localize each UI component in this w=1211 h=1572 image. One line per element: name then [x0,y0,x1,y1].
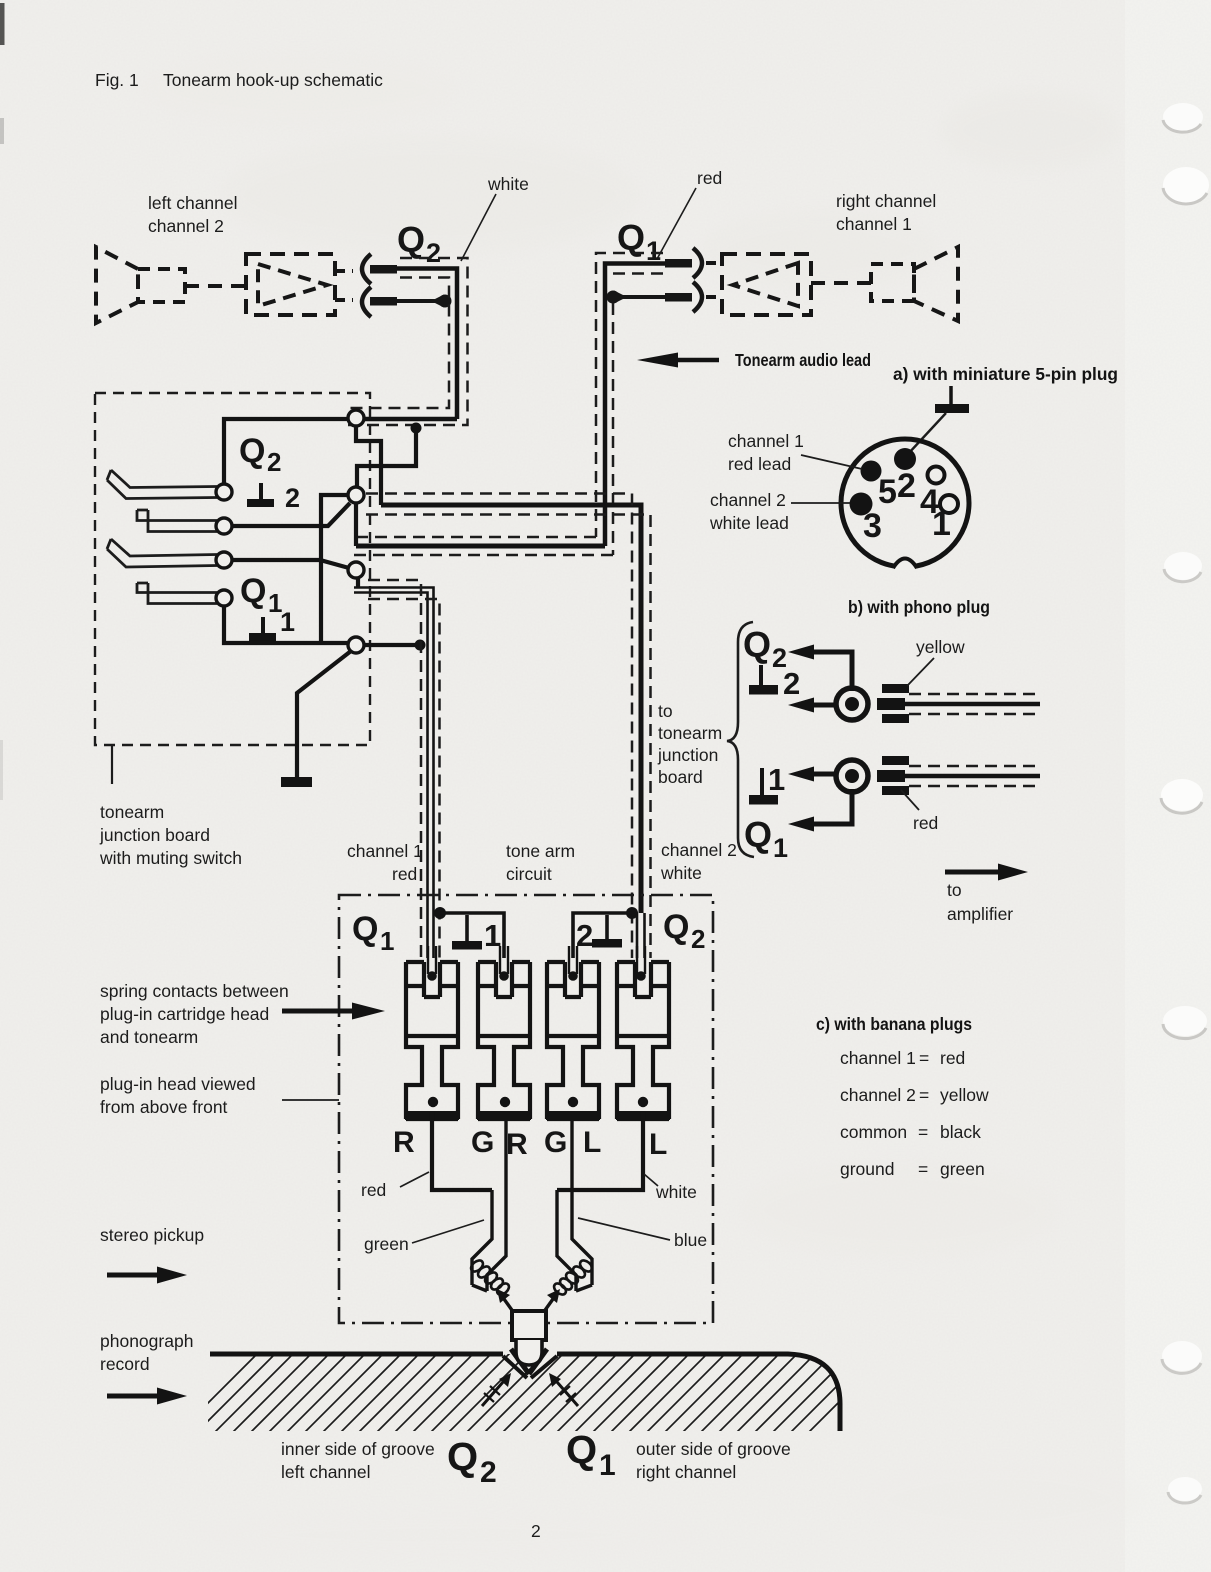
stylus tip [516,1340,542,1365]
leader red (phono) [901,790,919,810]
svg-text:Q: Q [240,572,266,610]
svg-text:channel 1: channel 1 [728,431,804,451]
spring contact arm t1 [107,470,217,499]
terminal t3 (Q1) [216,552,232,568]
stylus body [512,1311,546,1340]
wires amp to right sockets [706,263,722,297]
DIN plug locating notch [894,560,916,570]
svg-text:to: to [947,880,962,900]
svg-text:and tonearm: and tonearm [100,1027,198,1047]
wires amp to left sockets [335,271,353,300]
switch contact c2 [348,487,364,503]
left coil arm walls [472,1120,506,1291]
wire Q2 plug shield [397,299,439,303]
arrow phono jack2 to ground 1 [812,772,835,777]
svg-text:b) with phono plug: b) with phono plug [848,597,990,617]
svg-text:tonearm: tonearm [658,723,722,743]
arrow stereo pickup [107,1273,159,1278]
wire c4 to ground symbol [297,651,351,778]
svg-text:channel 1: channel 1 [840,1048,916,1068]
svg-text:channel 2: channel 2 [710,490,786,510]
terminal t4 (ground 1) [216,590,232,606]
svg-text:=: = [918,1122,928,1142]
ground symbol 2 (board) [259,483,263,500]
right amplifier triangle [733,263,798,306]
svg-text:channel 2: channel 2 [840,1085,916,1105]
svg-text:junction board: junction board [99,825,210,845]
Q1 cable shield dashed inner [352,274,663,556]
svg-text:=: = [919,1085,929,1105]
svg-text:2: 2 [897,467,916,505]
record surface right with rounded edge [557,1354,840,1431]
left speaker horn [96,247,138,323]
svg-text:red: red [913,813,938,833]
Q2 plug shield teardrop [439,295,452,308]
spring contact arm t2 [137,510,217,532]
arrow stylus to right coil [543,1299,553,1313]
svg-text:Tonearm hook-up schematic: Tonearm hook-up schematic [163,70,383,90]
groove walls [503,1356,557,1378]
svg-text:2: 2 [691,924,705,954]
svg-text:channel 2: channel 2 [661,840,737,860]
wire Q1 plug shield [619,295,665,299]
svg-text:channel 1: channel 1 [836,214,912,234]
svg-text:record: record [100,1354,150,1374]
left amplifier triangle [258,264,327,306]
tone arm circuit box [339,895,713,1323]
svg-text:Tonearm audio lead: Tonearm audio lead [735,350,871,370]
groove arrow left [482,1382,503,1406]
right socket arcs [693,248,702,312]
svg-text:Q: Q [239,432,265,470]
channel 1 shield dashed right [368,599,440,958]
svg-text:plug-in head viewed: plug-in head viewed [100,1074,256,1094]
page edge smudges [0,3,5,45]
svg-text:2: 2 [783,666,800,701]
arrow phonograph record [107,1394,159,1399]
arrow phono jack2 to Q1 [812,789,852,824]
svg-text:circuit: circuit [506,864,552,884]
svg-text:1: 1 [599,1449,616,1482]
punch hole 5 [1163,1006,1207,1039]
svg-text:junction: junction [657,745,718,765]
svg-text:yellow: yellow [940,1085,989,1105]
arrow phono jack1 to ground 2 [812,703,835,708]
svg-text:L: L [649,1128,667,1161]
svg-text:green: green [940,1159,985,1179]
svg-text:right channel: right channel [836,191,936,211]
arrow phono jack1 to Q2 [812,652,852,691]
svg-text:c) with banana plugs: c) with banana plugs [816,1014,972,1034]
Q1 audio cable (red, solid) [605,264,665,547]
wire t3 to c3 (switch arm) [232,560,349,568]
right coil arm walls [557,1120,592,1291]
svg-text:yellow: yellow [916,637,965,657]
svg-text:to: to [658,701,673,721]
spring contact arm t4 [137,583,217,604]
svg-text:R: R [393,1126,415,1159]
punch hole 1 [1163,103,1203,132]
svg-text:2: 2 [285,483,300,513]
ground symbol 2 (phono) [759,665,763,687]
svg-text:5: 5 [878,473,897,511]
svg-text:2: 2 [576,918,593,953]
svg-text:Q: Q [352,910,378,948]
DIN pin 5 [861,461,882,482]
channel1 bus horizontal (to Q1 cable) [356,544,605,549]
DIN pin 3 [850,493,873,516]
junction dot channel1 shield [434,907,446,919]
stylus contact V [511,1349,547,1374]
svg-text:Q: Q [744,814,772,855]
svg-text:with muting switch: with muting switch [99,848,242,868]
tonearm junction board outline [95,393,370,745]
svg-text:plug-in cartridge head: plug-in cartridge head [100,1004,269,1024]
left coil spring [469,1258,511,1296]
wire c3 to channel 1 run [356,578,360,587]
svg-text:2: 2 [531,1521,541,1541]
channel 2 bus lower double line [637,913,645,958]
channel 2 shield dashed outer [366,515,651,959]
leader red [400,1172,429,1187]
wire R down to left coil bar [432,1112,492,1190]
groove arrow right [557,1382,578,1406]
svg-text:common: common [840,1122,907,1142]
Q1 plug tips [665,259,692,268]
phono jack 1 [836,688,868,720]
spring contact unit 2 (G) [478,962,530,1119]
svg-text:1: 1 [932,505,951,543]
terminal t1 (Q2) [216,484,232,500]
record hatching [176,1351,890,1435]
svg-text:Fig. 1: Fig. 1 [95,70,139,90]
svg-text:green: green [364,1234,409,1254]
right coil spring [552,1258,594,1296]
svg-text:2: 2 [267,447,281,477]
right speaker terminal box [871,264,914,301]
wire c1 to channel2 bus [356,426,381,505]
channel 2 shield dashed inner [366,494,632,959]
svg-text:2: 2 [426,238,441,268]
svg-text:white: white [487,174,529,194]
svg-text:from above front: from above front [100,1097,228,1117]
svg-text:G: G [544,1126,567,1159]
wire c4 tail to shield dot [364,643,418,647]
tonearm audio lead arrow [677,358,719,363]
wire ground2 to contact 3 [573,913,632,958]
phono cable 2 (red) [905,774,1040,779]
spring contact unit 1 (R) [406,962,458,1119]
wire t1 to contact c1 [224,419,347,484]
svg-text:Q: Q [743,624,771,665]
ground symbol 1 (board) [261,617,265,634]
DIN pin 1 [940,495,958,513]
junction board pointer tick [111,746,113,784]
svg-text:channel 2: channel 2 [148,216,224,236]
Q2 cable shield dashed outer [346,258,468,425]
svg-text:red: red [392,864,417,884]
svg-text:outer side of groove: outer side of groove [636,1439,791,1459]
leader yellow [907,658,934,686]
leader blue [578,1218,670,1240]
svg-text:amplifier: amplifier [947,904,1013,924]
leader white [644,1174,658,1186]
svg-text:black: black [940,1122,981,1142]
Q1 cable shield dashed outer [352,253,663,537]
svg-text:blue: blue [674,1230,707,1250]
svg-text:red: red [697,168,722,188]
arrow stylus to left coil [504,1299,514,1313]
left socket arcs [362,254,371,317]
svg-text:1: 1 [773,833,788,863]
svg-text:1: 1 [768,762,785,797]
Q2 plug tips [370,265,397,274]
punch hole 2 [1163,167,1209,204]
svg-text:=: = [918,1159,928,1179]
left amplifier box [246,254,335,315]
wire shield tap to c2 [357,428,416,488]
shield tap dot (channel 1) [415,640,426,651]
svg-text:=: = [919,1048,929,1068]
punch hole 6 [1162,1341,1202,1373]
svg-text:Q: Q [447,1435,478,1479]
svg-text:spring contacts between: spring contacts between [100,981,289,1001]
svg-text:2: 2 [480,1456,497,1489]
wire ground1 to contact 2 [440,913,504,958]
svg-text:G: G [471,1126,494,1159]
wire speaker to right amp [811,281,871,285]
right speaker horn [914,247,958,321]
svg-text:Q: Q [566,1428,597,1472]
arrow to amplifier [945,870,999,875]
svg-text:tone arm: tone arm [506,841,575,861]
Q2 cable shield dashed inner [346,278,449,409]
svg-text:R: R [506,1128,528,1161]
svg-text:white lead: white lead [709,513,789,533]
wire t2 to c2 (switch arm) [232,503,350,526]
svg-text:L: L [583,1126,601,1159]
channel 1 shield dashed left [368,580,421,958]
punch hole 3 [1164,552,1202,582]
DIN plug ground symbol [949,386,953,406]
leader ground to pin 2 [908,413,946,454]
svg-text:red: red [361,1180,386,1200]
Q1 plug shield teardrop [607,291,620,304]
svg-text:1: 1 [380,926,394,956]
wire t4 to c4 [224,606,347,643]
svg-text:Q: Q [397,219,425,260]
leader white to Q2 cable [461,194,496,261]
wire c2 to ground-1 rail [321,495,347,643]
record surface left [210,1352,503,1357]
phono plug 2 body [882,756,909,765]
phono plug 1 body [882,684,909,693]
svg-text:red: red [940,1048,965,1068]
wire c2 to channel1 bus [354,503,358,546]
svg-text:1: 1 [484,918,501,953]
leader red to Q1 cable [657,188,696,259]
junction dot channel2 shield [626,907,638,919]
terminal t2 (ground 2) [216,518,232,534]
svg-text:white: white [655,1182,697,1202]
punch hole 4 [1161,779,1203,813]
svg-text:left channel: left channel [281,1462,371,1482]
svg-text:right channel: right channel [636,1462,736,1482]
Q2 audio cable (white, solid) [365,269,457,420]
spring contact unit 3 (G) [547,962,599,1119]
left speaker terminal box [138,269,185,302]
svg-text:channel 1: channel 1 [347,841,423,861]
svg-text:inner side of groove: inner side of groove [281,1439,435,1459]
svg-text:stereo pickup: stereo pickup [100,1225,204,1245]
svg-text:phonograph: phonograph [100,1331,193,1351]
svg-text:Q: Q [663,908,689,946]
chassis ground bar [281,777,312,787]
svg-text:white: white [660,863,702,883]
switch contact c4 [348,637,364,653]
leader to pin 5 [801,455,862,469]
switch contact c3 [348,562,364,578]
svg-text:a) with miniature 5-pin plug: a) with miniature 5-pin plug [893,364,1118,384]
brace to tonearm junction board [727,622,754,857]
leader plug-in head to box [282,1099,339,1101]
DIN pin 4 [928,467,945,484]
svg-text:board: board [658,767,703,787]
DIN pin 2 [894,448,916,470]
spring contact arm t3 [107,539,217,567]
leader green [412,1220,484,1243]
channel 2 bus (board to cartridge) [381,505,641,913]
svg-text:3: 3 [863,507,882,545]
right amplifier box [722,254,811,315]
leader to pin 3 [791,502,850,504]
svg-text:red lead: red lead [728,454,791,474]
channel 1 run (double line) [354,588,434,959]
svg-text:1: 1 [280,607,295,637]
svg-text:ground: ground [840,1159,895,1179]
wire speaker to left amp [185,284,246,288]
DIN 5-pin plug body U1 [841,439,969,567]
punch hole 7 [1168,1477,1202,1503]
ground symbol 1 (cartridge) [465,915,469,942]
phono cable 1 (yellow) [905,702,1040,707]
svg-text:tonearm: tonearm [100,802,164,822]
spring contact unit 4 (L) [617,962,669,1119]
arrow spring contacts [282,1009,353,1014]
switch contact c1 [348,410,364,426]
shield tap dot (channel 2) [411,423,422,434]
phono jack 2 [836,760,868,792]
wire L down to right coil bar [557,1112,643,1190]
svg-text:left channel: left channel [148,193,238,213]
